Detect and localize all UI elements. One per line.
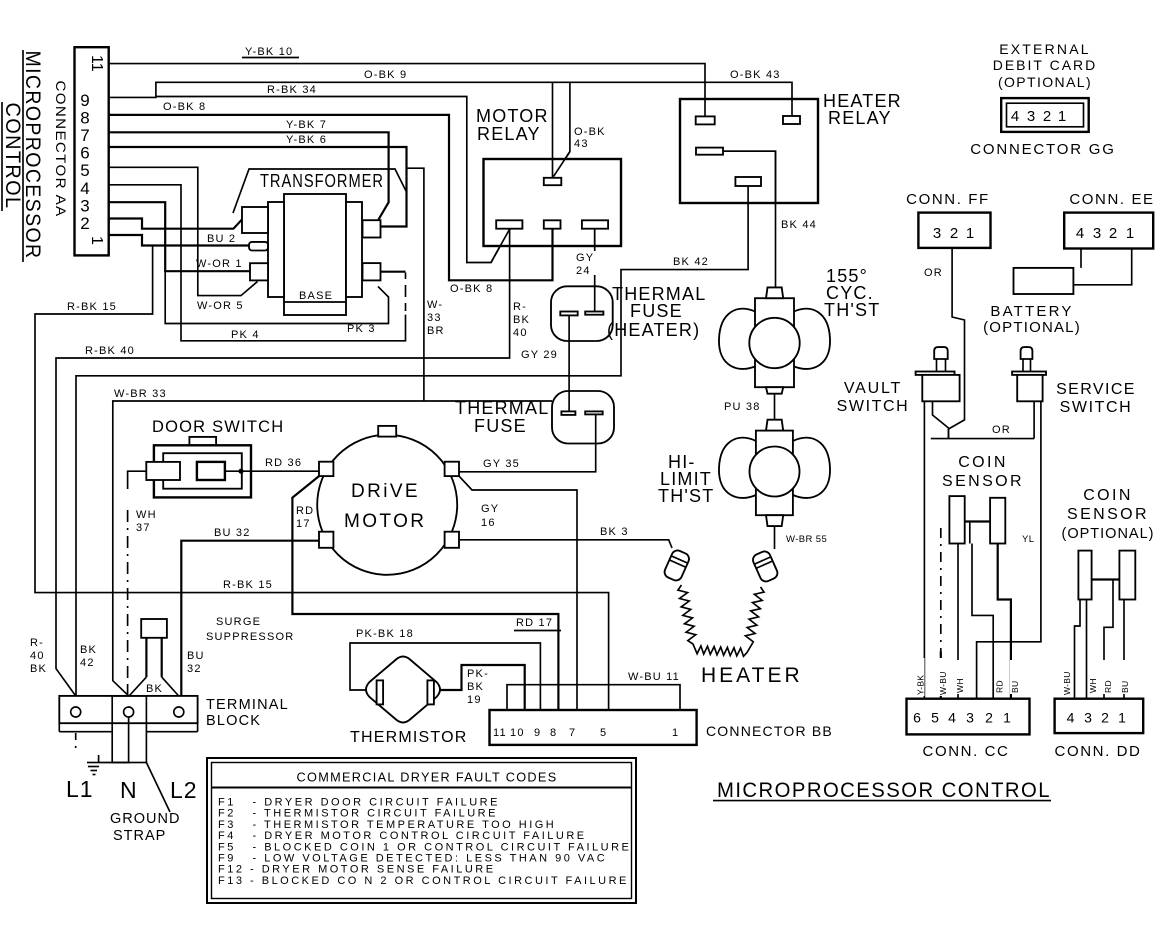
- svg-text:PK-: PK-: [467, 668, 489, 680]
- svg-text:F3 - THERMISTOR TEMPERATURE: F3 - THERMISTOR TEMPERATURE TOO HIGH: [218, 819, 556, 831]
- svg-text:1: 1: [966, 225, 974, 242]
- svg-text:PK 3: PK 3: [347, 323, 376, 335]
- label RD 17: [294, 503, 315, 530]
- vault switch: [916, 347, 960, 401]
- svg-text:1: 1: [88, 236, 105, 245]
- svg-text:F2 - THERMISTOR CIRCUIT FAIL: F2 - THERMISTOR CIRCUIT FAILURE: [218, 808, 498, 820]
- motor top pin: [378, 426, 396, 437]
- hi-limit thermostat: [719, 420, 830, 526]
- svg-text:OR: OR: [924, 267, 943, 279]
- svg-text:SUPPRESSOR: SUPPRESSOR: [206, 631, 294, 643]
- wire W-OR 1 : AA pin3 to transformer tab, continues to assembly outline: [109, 202, 250, 271]
- svg-text:COMMERCIAL DRYER FAULT CODES: COMMERCIAL DRYER FAULT CODES: [297, 771, 558, 785]
- transformer left-top tab: [242, 207, 268, 233]
- svg-text:F12 - DRYER MOTOR SENSE FAILUR: F12 - DRYER MOTOR SENSE FAILURE: [218, 864, 496, 876]
- svg-text:1: 1: [1126, 225, 1134, 242]
- svg-text:RD: RD: [995, 680, 1005, 693]
- svg-text:VAULT: VAULT: [844, 380, 902, 397]
- svg-text:BASE: BASE: [299, 290, 333, 302]
- svg-text:19: 19: [467, 694, 482, 706]
- connector AA: [75, 47, 109, 255]
- connector EE: [1064, 213, 1153, 249]
- svg-text:TH'ST: TH'ST: [824, 300, 880, 320]
- wire RD 36 : door switch to motor left-top pin: [225, 470, 319, 472]
- thermistor terminal left: [377, 680, 384, 704]
- body: [755, 298, 794, 387]
- svg-text:3: 3: [80, 197, 89, 216]
- svg-text:MOTOR: MOTOR: [344, 511, 426, 532]
- heater coil element: [678, 585, 764, 656]
- wire RD to DD pin 2: [1104, 600, 1113, 699]
- svg-text:STRAP: STRAP: [113, 828, 166, 844]
- wire EE pin1 to battery right: [1073, 249, 1131, 285]
- svg-text:TH'ST: TH'ST: [658, 486, 714, 506]
- svg-text:43: 43: [574, 138, 589, 150]
- svg-text:RELAY: RELAY: [477, 124, 541, 144]
- svg-text:BU 2: BU 2: [207, 233, 236, 245]
- connector BB: [490, 710, 697, 745]
- terminal bar right: [585, 312, 603, 315]
- svg-text:4: 4: [80, 179, 89, 198]
- svg-text:(HEATER): (HEATER): [607, 320, 700, 340]
- connector CC: [907, 699, 1030, 735]
- svg-text:2: 2: [1101, 710, 1109, 726]
- wire BU 2 : AA pin1 to transformer BU2 tab: [109, 235, 250, 246]
- svg-text:CONN. FF: CONN. FF: [906, 191, 990, 208]
- svg-text:W-BR 55: W-BR 55: [786, 534, 827, 545]
- wire W-BR 55: [774, 526, 776, 549]
- heater terminal left (bullet): [663, 549, 691, 583]
- svg-text:11: 11: [88, 55, 105, 72]
- fault codes table: [207, 758, 636, 903]
- svg-text:PK 4: PK 4: [231, 329, 260, 341]
- wire OR joining line (coin box top): [931, 438, 1034, 440]
- svg-text:BU: BU: [1010, 681, 1020, 693]
- wire BK 42 : heater relay pin to terminal block L1: [76, 186, 748, 696]
- svg-text:33: 33: [427, 312, 442, 324]
- svg-text:GY 35: GY 35: [483, 458, 520, 470]
- svg-text:24: 24: [576, 265, 591, 277]
- svg-text:4: 4: [948, 710, 956, 726]
- svg-text:EXTERNAL: EXTERNAL: [999, 41, 1091, 57]
- svg-text:CONNECTOR GG: CONNECTOR GG: [970, 141, 1116, 158]
- wire BK 44 : heater relay to 155 cyc thermostat: [723, 151, 776, 287]
- wire BK 42 stub: [747, 186, 749, 203]
- coin sensor 1: [949, 496, 1005, 543]
- terminal bar left: [561, 411, 575, 415]
- svg-text:SERVICE: SERVICE: [1056, 381, 1136, 398]
- svg-text:(OPTIONAL): (OPTIONAL): [983, 319, 1081, 336]
- vertical title CONTROL: [1, 102, 25, 211]
- circle: [749, 318, 799, 368]
- wing left: [719, 438, 756, 498]
- svg-text:GY: GY: [481, 503, 499, 515]
- wire FF pin1 down to vault area: [949, 248, 965, 439]
- svg-text:RD 17: RD 17: [516, 617, 553, 629]
- wire R-BK 15 : branch down left side to drive motor row: [35, 247, 609, 711]
- svg-text:10: 10: [510, 727, 525, 739]
- svg-text:HEATER: HEATER: [701, 664, 803, 687]
- wire stub Y-BK 10 into heater relay: [704, 99, 706, 116]
- wire stub R-BK 40 under left pin: [509, 229, 511, 246]
- svg-text:MOTOR: MOTOR: [476, 106, 549, 126]
- svg-text:5: 5: [600, 727, 607, 739]
- svg-text:CONN. EE: CONN. EE: [1069, 191, 1154, 208]
- svg-text:RD 36: RD 36: [265, 457, 302, 469]
- svg-text:16: 16: [481, 517, 496, 529]
- svg-text:2: 2: [950, 225, 958, 242]
- svg-text:8: 8: [550, 727, 557, 739]
- svg-text:TERMINAL: TERMINAL: [206, 697, 289, 713]
- svg-text:8: 8: [80, 109, 89, 128]
- svg-text:2: 2: [985, 710, 993, 726]
- svg-text:BU: BU: [1120, 681, 1130, 693]
- wire BU 32 : motor left-bottom pin to terminal block L2: [181, 541, 319, 696]
- wire W-BU to DD pin 4: [1075, 600, 1081, 699]
- surge suppressor: [130, 619, 179, 696]
- battery: [1014, 268, 1074, 294]
- svg-text:O-BK 8: O-BK 8: [450, 283, 493, 295]
- motor relay pin mid: [544, 220, 561, 228]
- svg-text:(OPTIONAL): (OPTIONAL): [1062, 526, 1155, 542]
- wire O-BK drop to motor relay coil pin: [552, 82, 554, 178]
- wire WH to CC pin 4: [957, 544, 959, 699]
- svg-text:COIN: COIN: [958, 454, 1008, 471]
- rotated wire labels DD: [1062, 658, 1130, 696]
- svg-text:4: 4: [1076, 225, 1084, 242]
- svg-text:3: 3: [966, 710, 974, 726]
- wire EE pin4 to battery: [1080, 249, 1082, 268]
- top tab: [189, 437, 216, 445]
- wire R-BK 34 slant redraw: [491, 230, 509, 263]
- svg-text:9: 9: [534, 727, 541, 739]
- wire vault switch legs: [933, 401, 949, 438]
- svg-text:7: 7: [569, 727, 576, 739]
- terminal N circle: [124, 707, 134, 717]
- svg-text:6: 6: [913, 710, 921, 726]
- svg-text:L2: L2: [170, 777, 198, 803]
- svg-text:9: 9: [80, 91, 89, 110]
- svg-text:42: 42: [80, 657, 95, 669]
- svg-text:R-: R-: [30, 637, 44, 649]
- svg-text:O-BK 43: O-BK 43: [730, 69, 781, 81]
- wire GY 35 : motor right-top pin to thermal fuse 2: [459, 415, 596, 472]
- wire R-BK 40 : motor relay left pin down, across, down to terminal block: [56, 229, 510, 696]
- vertical title MICROPROCESSOR: [21, 50, 45, 262]
- svg-text:BATTERY: BATTERY: [990, 303, 1073, 320]
- svg-text:3: 3: [1093, 225, 1101, 242]
- svg-text:BK: BK: [80, 644, 97, 656]
- svg-text:GY 29: GY 29: [521, 349, 558, 361]
- svg-text:FUSE: FUSE: [630, 301, 683, 321]
- wire PK-BK 18 : thermistor left to BB pin 9: [350, 643, 540, 710]
- svg-text:6: 6: [80, 144, 89, 163]
- heater relay pin top-right: [783, 116, 800, 124]
- 155 deg cyc thermostat: [719, 287, 830, 393]
- assembly outline lower left: [165, 271, 388, 323]
- transformer right-bottom tab: [363, 263, 381, 280]
- wire O-BK 8 : AA pin8 to motor relay middle-bottom pin: [109, 115, 553, 280]
- svg-text:F5 - BLOCKED COIN 1 OR CONTR: F5 - BLOCKED COIN 1 OR CONTROL CIRCUIT F…: [218, 841, 631, 853]
- svg-text:F9 - LOW VOLTAGE DETECTED: L: F9 - LOW VOLTAGE DETECTED: LESS THAN 90 …: [218, 853, 607, 865]
- svg-text:RD: RD: [296, 505, 314, 517]
- wire stub GY 29 into blob: [568, 391, 570, 411]
- wire GY 16 : motor right-top pin to BB pin 7: [459, 476, 577, 710]
- svg-text:7: 7: [80, 126, 89, 145]
- svg-text:PK-BK 18: PK-BK 18: [356, 628, 414, 640]
- svg-text:3: 3: [1084, 710, 1092, 726]
- motor pin left-top: [319, 462, 333, 476]
- top cap: [766, 420, 783, 431]
- svg-text:THERMAL: THERMAL: [455, 398, 549, 418]
- wire RD to CC pin 2: [972, 544, 993, 699]
- ground symbol: [87, 755, 99, 775]
- dash below L1: [75, 733, 77, 748]
- bottom cap: [766, 515, 783, 526]
- left plug: [146, 462, 180, 480]
- wire Y-BK 10 : AA pin11 to heater relay top-left pin: [109, 64, 705, 117]
- svg-text:BK 42: BK 42: [673, 256, 709, 268]
- thermistor: [366, 657, 440, 723]
- wire W-OR 5 : AA pin5 to transformer tab bottom: [109, 167, 258, 295]
- svg-text:3: 3: [1027, 108, 1035, 125]
- svg-text:Y-BK 10: Y-BK 10: [245, 46, 293, 58]
- svg-text:RELAY: RELAY: [828, 108, 892, 128]
- wire PK-BK 19 : thermistor right to BB pin 10: [440, 665, 525, 710]
- svg-text:MICROPROCESSOR CONTROL: MICROPROCESSOR CONTROL: [717, 779, 1051, 802]
- wire BK 44 inside relay: [723, 151, 776, 203]
- body: [756, 431, 793, 516]
- coin sensor 2: [1078, 551, 1135, 600]
- terminal L2 circle: [174, 707, 184, 717]
- wire Y-BK 7 : AA pin7 to transformer right-top tab: [109, 132, 389, 219]
- wing left: [719, 309, 756, 369]
- rotated wire labels CC: [916, 658, 1021, 696]
- svg-text:BK 44: BK 44: [781, 219, 817, 231]
- contact block: [197, 462, 225, 480]
- svg-text:PU 38: PU 38: [724, 401, 761, 413]
- svg-text:O-BK 8: O-BK 8: [163, 101, 206, 113]
- wire GY 29 : thermal fuse 1 to thermal fuse 2: [568, 315, 570, 414]
- svg-text:W-OR 1: W-OR 1: [196, 258, 243, 270]
- svg-text:F13 - BLOCKED CO N 2 OR CONTRO: F13 - BLOCKED CO N 2 OR CONTROL CIRCUIT …: [218, 875, 629, 887]
- label GY 24: [575, 251, 596, 277]
- heater relay pin top-left: [696, 116, 715, 124]
- svg-text:R-BK 15: R-BK 15: [223, 579, 273, 591]
- svg-text:SURGE: SURGE: [216, 616, 261, 628]
- wire door switch left stub WH 37: [128, 471, 147, 489]
- circle: [750, 447, 800, 497]
- wire stub O-BK 9 into motor relay coil: [552, 159, 554, 178]
- svg-text:F1 - DRYER DOOR CIRCUIT FAIL: F1 - DRYER DOOR CIRCUIT FAILURE: [218, 797, 500, 809]
- wire RD 17 : motor left-top pin down to connector BB pin 8: [292, 476, 558, 710]
- door switch: [146, 418, 284, 497]
- svg-text:W-BU 11: W-BU 11: [628, 671, 680, 683]
- connector GG: [1001, 98, 1088, 132]
- wire W-BU dash-dot to CC pin 5: [940, 528, 942, 651]
- transformer right-top tab: [363, 220, 381, 237]
- transformer outline callout: [233, 169, 406, 213]
- svg-text:BK: BK: [513, 314, 530, 326]
- wire WH 37 dash-dot to N terminal: [127, 510, 129, 695]
- wire vault left leg / Y-BK down to CC pin 6: [923, 401, 925, 698]
- outer body: [154, 445, 251, 497]
- svg-text:Y-BK 7: Y-BK 7: [286, 119, 327, 131]
- svg-text:O-BK: O-BK: [574, 126, 606, 138]
- heater relay: [680, 91, 902, 203]
- svg-text:BK: BK: [146, 683, 163, 695]
- svg-text:4: 4: [1011, 108, 1019, 125]
- transformer: [233, 169, 406, 315]
- svg-text:SENSOR: SENSOR: [1067, 506, 1149, 523]
- svg-text:CONTROL: CONTROL: [1, 103, 25, 210]
- wire PU 38: [774, 394, 776, 420]
- svg-text:WH: WH: [1088, 678, 1098, 693]
- svg-text:OR: OR: [992, 424, 1011, 436]
- svg-text:O-BK 9: O-BK 9: [364, 69, 407, 81]
- svg-text:2: 2: [1043, 108, 1051, 125]
- top cap: [766, 287, 783, 298]
- motor relay: [476, 106, 621, 246]
- svg-text:DEBIT CARD: DEBIT CARD: [993, 57, 1098, 73]
- wire stub GY 24 into blob: [594, 286, 596, 311]
- svg-text:37: 37: [136, 522, 151, 534]
- wire stub GY 24 under right pin: [594, 229, 596, 246]
- svg-text:GY: GY: [576, 252, 594, 264]
- transformer left winding: [268, 202, 284, 297]
- service switch: [1012, 347, 1046, 401]
- transformer W-OR1 tab: [250, 263, 268, 280]
- svg-text:DRiVE: DRiVE: [351, 481, 420, 502]
- svg-text:3: 3: [933, 225, 941, 242]
- svg-text:RD: RD: [1103, 680, 1113, 693]
- svg-text:BU: BU: [187, 650, 205, 662]
- wire tab to PK3 corner: [381, 271, 406, 273]
- svg-text:W-BR 33: W-BR 33: [114, 388, 167, 400]
- svg-text:17: 17: [296, 518, 311, 530]
- leader O-BK 43 redraw: [554, 152, 570, 177]
- wire stub O-BK 43 into heater relay: [791, 99, 793, 116]
- motor relay pin right: [582, 220, 608, 228]
- terminal bar left: [560, 312, 577, 316]
- svg-text:R-BK 34: R-BK 34: [267, 84, 317, 96]
- transformer core: [284, 194, 346, 315]
- wire GY 24 : motor relay right pin to thermal fuse heater: [594, 229, 596, 312]
- svg-text:W-BU: W-BU: [938, 671, 948, 695]
- label W- 33 BR: [426, 297, 448, 337]
- motor pin right-bottom: [445, 532, 459, 548]
- svg-text:FUSE: FUSE: [474, 416, 527, 436]
- svg-text:SWITCH: SWITCH: [837, 398, 910, 415]
- drive motor: [317, 426, 459, 575]
- thermal fuse: [552, 391, 614, 444]
- transformer right winding: [346, 202, 362, 297]
- svg-text:CONN. CC: CONN. CC: [923, 743, 1010, 760]
- connector FF: [918, 213, 990, 248]
- svg-text:YL: YL: [1022, 534, 1034, 545]
- motor relay pin left: [496, 220, 522, 228]
- svg-text:W-BU: W-BU: [1062, 671, 1072, 695]
- wire WH to DD pin 3: [1086, 600, 1088, 699]
- wing right: [793, 309, 830, 369]
- svg-text:40: 40: [513, 327, 528, 339]
- thermal fuse (heater): [551, 286, 613, 341]
- junction dot: [238, 469, 243, 474]
- motor pin left-bottom: [319, 532, 333, 548]
- svg-text:DOOR SWITCH: DOOR SWITCH: [152, 418, 284, 436]
- wire PK 4 / PK 3 : AA pin4 under transformer to right-bottom tab: [109, 185, 406, 341]
- motor relay coil pin: [544, 178, 562, 185]
- wire W-BR 33 vertical branch (W-33-BR): [407, 168, 424, 401]
- heater relay pin lower-center: [735, 177, 761, 186]
- heater relay pin mid-left: [696, 148, 723, 155]
- svg-text:CONNECTOR BB: CONNECTOR BB: [706, 723, 833, 739]
- svg-text:1: 1: [1058, 108, 1066, 125]
- svg-text:BK: BK: [467, 681, 484, 693]
- svg-text:F4 - DRYER MOTOR CONTROL CIR: F4 - DRYER MOTOR CONTROL CIRCUIT FAILURE: [218, 830, 587, 842]
- svg-text:SWITCH: SWITCH: [1060, 399, 1133, 416]
- wire Y-BK 6 : AA pin6 to transformer right-top tab (side entry): [109, 147, 407, 227]
- svg-text:L1: L1: [66, 776, 94, 802]
- thermistor terminal right: [427, 680, 434, 704]
- svg-text:(OPTIONAL): (OPTIONAL): [998, 74, 1092, 90]
- ground strap leader: [146, 763, 170, 813]
- svg-text:TRANSFORMER: TRANSFORMER: [260, 171, 384, 191]
- svg-text:BLOCK: BLOCK: [206, 713, 261, 729]
- svg-text:CONN. DD: CONN. DD: [1055, 743, 1142, 760]
- svg-text:32: 32: [187, 663, 202, 675]
- bottom cap: [766, 387, 783, 394]
- leader O-BK 43 to motor relay pin: [554, 82, 570, 176]
- svg-text:BU 32: BU 32: [214, 527, 251, 539]
- svg-text:WH: WH: [955, 678, 965, 693]
- wire O-BK 9 / O-BK 43 : AA pin9 jog up, runs to heater relay top-right pin: [109, 82, 792, 116]
- svg-text:Y-BK: Y-BK: [916, 675, 926, 695]
- wire AA pin2 to transformer left-top tab: [109, 219, 242, 229]
- svg-text:BK 3: BK 3: [600, 526, 629, 538]
- wire stub O-BK 8 under mid pin: [551, 229, 553, 246]
- svg-text:COIN: COIN: [1083, 487, 1133, 504]
- terminal L1 circle: [71, 707, 81, 717]
- svg-text:Y-BK 6: Y-BK 6: [286, 134, 327, 146]
- terminal bar right: [585, 411, 603, 414]
- svg-text:W-: W-: [427, 299, 443, 311]
- svg-text:SENSOR: SENSOR: [942, 473, 1024, 490]
- svg-text:1: 1: [1118, 710, 1126, 726]
- svg-text:5: 5: [80, 161, 89, 180]
- svg-text:THERMISTOR: THERMISTOR: [350, 729, 467, 746]
- wing right: [793, 438, 830, 498]
- svg-text:GROUND: GROUND: [110, 811, 180, 827]
- transformer BU2 tab: [249, 242, 268, 251]
- label PK- BK 19: [465, 667, 489, 706]
- wire BK 3 : motor to heater terminal: [458, 540, 672, 548]
- wire service switch left leg: [1033, 401, 1035, 438]
- motor pin right-top: [445, 462, 459, 476]
- inner body: [163, 453, 242, 489]
- svg-text:11: 11: [493, 727, 507, 739]
- wire PK3 dash-dot segment: [405, 273, 407, 312]
- svg-text:W-OR 5: W-OR 5: [197, 300, 244, 312]
- wire service switch right leg to CC pin 3: [977, 401, 1041, 698]
- svg-text:4: 4: [1067, 710, 1075, 726]
- svg-text:2: 2: [1109, 225, 1117, 242]
- wire R-BK 34 : runs to motor relay left-bottom pin: [156, 97, 510, 263]
- svg-text:5: 5: [931, 710, 939, 726]
- svg-text:N: N: [120, 777, 137, 803]
- svg-text:BK: BK: [30, 663, 47, 675]
- svg-text:BR: BR: [427, 325, 445, 337]
